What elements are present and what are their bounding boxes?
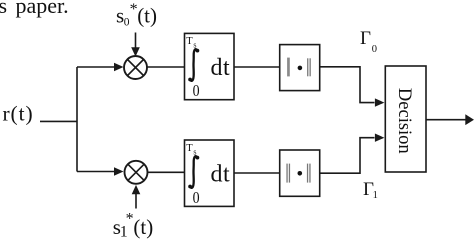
- svg-text:T: T: [186, 36, 193, 47]
- svg-text:*: *: [126, 211, 134, 228]
- svg-text:dt: dt: [211, 55, 231, 81]
- svg-text:r(t): r(t): [3, 102, 34, 126]
- svg-text:Decision: Decision: [394, 88, 414, 154]
- svg-text:s: s: [193, 147, 196, 156]
- svg-text:0: 0: [193, 82, 200, 101]
- svg-text:T: T: [186, 143, 193, 154]
- svg-text:0: 0: [193, 189, 200, 208]
- svg-text:Γ: Γ: [360, 28, 371, 49]
- svg-text:paper.: paper.: [16, 0, 69, 18]
- svg-text:s: s: [0, 0, 7, 18]
- svg-text:(t): (t): [133, 215, 153, 239]
- svg-text:dt: dt: [211, 162, 231, 188]
- svg-text:(t): (t): [137, 3, 157, 27]
- svg-text:0: 0: [124, 17, 130, 29]
- svg-text:1: 1: [373, 190, 378, 201]
- svg-text:0: 0: [372, 44, 377, 55]
